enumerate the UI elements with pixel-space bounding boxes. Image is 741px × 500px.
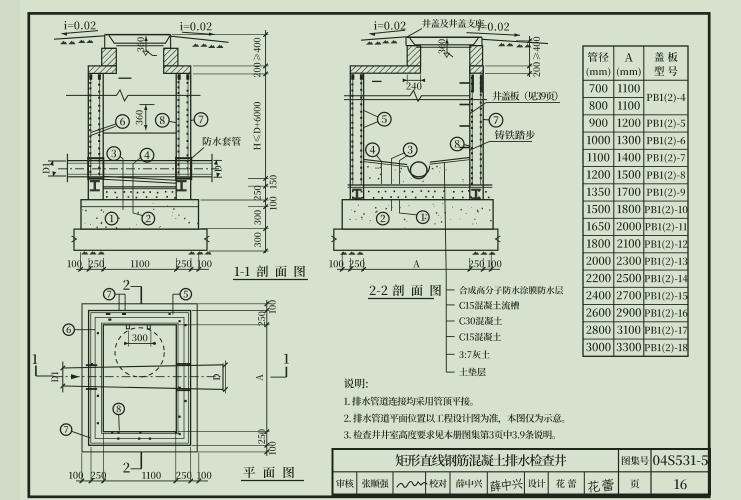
section 2-2: label 井盖及井盖支座 xyxy=(422,19,484,28)
plan: bubble 5 xyxy=(180,289,191,300)
bottom dimension chain 1-1 (100 250 1100 250 100) xyxy=(76,268,209,270)
notes heading 说明: xyxy=(344,378,368,388)
ground hatch under cushion 1-1 xyxy=(81,251,105,254)
material leader vertical line 2-2 xyxy=(444,163,446,274)
plan: neck opening notches xyxy=(126,325,129,329)
callout bubble 7 (1-1) xyxy=(194,113,208,127)
section 2-2: slope label i=0.02 right xyxy=(478,22,510,31)
main title text xyxy=(396,454,567,466)
cover depth dim 360 (1-1) xyxy=(145,36,147,51)
callout bubble 4 (2-2) xyxy=(366,143,380,157)
bubble 1 (1-1) xyxy=(105,212,118,225)
material label 3:7 lime soil xyxy=(459,350,490,359)
top slab 1-1 (hatched) xyxy=(88,66,116,74)
chamber wall right 2-2 xyxy=(469,66,471,200)
label 铸铁踏步 xyxy=(495,130,535,140)
designer signature 花蕾 handwritten xyxy=(587,478,614,493)
manhole cover 2-2 xyxy=(406,36,482,38)
atlas number label 图集号 xyxy=(622,456,649,465)
iron steps 2-2 xyxy=(460,82,470,84)
wall top anchor bars 1-1 xyxy=(89,74,189,80)
callout bubble 5 (2-2) xyxy=(378,112,392,126)
reviewer name 张顺强 xyxy=(362,479,388,488)
callout bubble 6 (1-1) xyxy=(116,115,130,129)
callout bubble 7 (2-2) xyxy=(489,113,503,127)
plan: opening dim 300 xyxy=(128,331,130,347)
section 1-1: ground hatch right xyxy=(192,43,207,46)
rebar stub line in chamber 2-2 xyxy=(372,80,382,82)
bubble 2 (1-1) xyxy=(142,212,155,225)
material label C15 flow channel xyxy=(459,301,519,310)
view title 平面图 xyxy=(243,467,294,479)
extension lines bottom dims 2-2 xyxy=(341,252,343,271)
table header text xyxy=(588,52,609,62)
neck wall left 1-1 (brick hatch) xyxy=(102,48,117,66)
cushion layer 1-1 xyxy=(74,229,207,250)
cover depth dim 360 (2-2) xyxy=(446,39,448,53)
pipe dim D right 1-1 xyxy=(214,159,223,161)
section 2-2: slope label i=0.02 left xyxy=(374,21,406,30)
checker label 校对 xyxy=(429,479,447,488)
wall rebar dots 1-1 xyxy=(89,76,188,175)
neck wall thickness dim 240 (2-2) xyxy=(406,75,408,83)
section 1-1: slope label i=0.02 left xyxy=(64,21,96,30)
ground hatch under cushion 2-2 xyxy=(340,251,364,254)
callout bubble 3 (1-1) xyxy=(107,147,121,161)
chamber wall right 1-1 xyxy=(175,73,177,199)
flow channel U 2-2 xyxy=(408,166,430,177)
section 1-1: ground line right xyxy=(171,36,229,42)
plan: pipe end right xyxy=(222,363,224,391)
callout bubble 3 (2-2) xyxy=(403,143,417,157)
designer label 设计 xyxy=(528,479,545,488)
wall rebar dots 2-2 xyxy=(351,77,481,185)
plan: pipe dim D1 left xyxy=(61,366,65,370)
plan: bubble 7 bottom-left xyxy=(60,424,71,435)
section 2-2: ground line right xyxy=(482,39,548,43)
plan: bubble 6 xyxy=(63,324,74,335)
table body text xyxy=(590,84,608,92)
section 2-2: ground hatch right xyxy=(498,43,513,46)
footing rebar mark left 1-1 xyxy=(90,180,100,191)
base slab 2-2 (stippled) xyxy=(342,200,493,229)
note 2 xyxy=(344,414,564,424)
callout bubble 8 (1-1) xyxy=(156,114,170,128)
section 2-2: ground line left xyxy=(361,37,406,40)
plan: wall opening edges at pipe xyxy=(86,364,97,366)
label waterproof sleeve 防水套管 xyxy=(203,137,241,146)
table row lines xyxy=(583,97,644,99)
plan: pipe dim D right xyxy=(223,363,227,367)
neck wall right 1-1 (brick hatch) xyxy=(164,48,178,66)
section 1-1: ground line left xyxy=(54,36,105,39)
plan: pipe end left xyxy=(62,362,64,393)
footing rebar mark left 2-2 xyxy=(352,189,362,200)
plan: wall rebar line xyxy=(95,317,184,438)
pipe centerline 1-1 xyxy=(58,168,219,170)
cover plate table frame xyxy=(583,46,688,356)
chamber wall left 1-1 xyxy=(87,73,89,199)
pipe sleeve left wall 1-1 xyxy=(88,157,104,159)
plan: section mark 2 bottom xyxy=(123,463,129,473)
bench top line 1-1 xyxy=(103,132,176,134)
section 2-2: ground hatch left xyxy=(366,41,381,44)
plan: pipe channel top line xyxy=(63,365,223,368)
plan bottom extension lines xyxy=(81,453,83,483)
material label soil cushion xyxy=(459,368,486,377)
invert slope lines 1-1 xyxy=(103,176,176,180)
cover slab label 井盖板（见39页） xyxy=(492,91,557,100)
footing rebar mark right 2-2 xyxy=(471,189,481,200)
leader lines bubbles 1-2 (1-1) xyxy=(122,199,124,210)
wall top anchor bars 2-2 xyxy=(351,74,363,80)
plan: pipe channel bottom line xyxy=(63,386,223,389)
neck wall left 2-2 (brick hatch) xyxy=(407,46,420,66)
chamber height dim 360 (1-1) xyxy=(140,104,155,106)
chamber wall left 2-2 xyxy=(349,73,351,200)
page number 16 xyxy=(675,479,687,489)
plan: dashed circle cover opening xyxy=(115,328,164,377)
material label C15 concrete xyxy=(459,333,501,342)
pipe dim D1 left 1-1 xyxy=(48,160,66,162)
rebar stub line in chamber 1-1 xyxy=(119,77,132,79)
chamber concrete fill stipple 2-2 xyxy=(367,165,464,183)
flow channel pipe circle 2-2 xyxy=(410,162,427,179)
atlas number 04S531-5 xyxy=(653,455,708,465)
plan: wall inner face xyxy=(103,325,176,432)
material callout bracket xyxy=(445,274,447,372)
break lines across 2-2 xyxy=(344,90,470,101)
section 1-1: slope label i=0.02 right xyxy=(180,22,212,31)
reviewer label 审核 xyxy=(336,479,354,488)
plan: section mark 1 left xyxy=(33,354,38,364)
cushion layer 2-2 xyxy=(334,229,498,250)
title block frame xyxy=(333,449,711,495)
note 3 xyxy=(344,430,555,439)
manhole cover 1-1 xyxy=(105,34,171,36)
bench slope lines 2-2 xyxy=(364,159,408,164)
break line across 1-1 xyxy=(66,90,201,101)
plan: wall outer face xyxy=(89,311,191,446)
plan: bottom dim chain xyxy=(76,480,208,482)
table cover type text xyxy=(647,93,686,103)
plan: right dim chain xyxy=(266,300,268,456)
title block row dividers xyxy=(356,472,358,495)
right dim labels 1-1 xyxy=(253,38,260,61)
plan: section mark 2 top xyxy=(123,280,129,290)
material label waterproof membrane xyxy=(459,286,563,294)
designer name 花蕾 xyxy=(556,479,576,488)
plan: rebar dots in walls xyxy=(91,313,187,440)
right dim extension lines 1-1 xyxy=(172,34,269,36)
extension lines bottom dims 1-1 xyxy=(80,252,82,271)
pipe end break right 1-1 xyxy=(211,154,213,182)
plan: base slab outline xyxy=(82,304,197,452)
checker name 薛中兴 xyxy=(456,479,482,488)
floor slab lines 2-2 xyxy=(348,184,493,186)
top slab 2-2 (hatched) xyxy=(350,66,420,73)
plan: section mark 1 right xyxy=(284,354,289,364)
plan right dim labels xyxy=(269,300,276,313)
base slab 1-1 (C30 stippled) xyxy=(81,200,199,229)
bubble 1 (2-2) xyxy=(417,211,430,224)
plan: pipe centerline xyxy=(54,376,223,378)
bubble 2 (2-2) xyxy=(377,212,390,225)
callout bubble 4 (1-1) xyxy=(140,148,154,162)
neck wall right 2-2 (brick hatch) xyxy=(470,46,483,66)
view title 2-2 剖面图 xyxy=(370,286,388,295)
wall footing joint lines 1-1 xyxy=(88,177,103,179)
right dimension chain 1-1 xyxy=(265,30,267,253)
floor slab lines 1-1 xyxy=(103,186,176,188)
pipe sleeve right wall 1-1 xyxy=(176,157,192,159)
right dim chain 2-2 (≥400 200) xyxy=(529,36,531,77)
callout bubble 8 (2-2) xyxy=(450,137,464,151)
footing rebar mark right 1-1 xyxy=(177,180,187,191)
plan: flow direction arrow xyxy=(71,374,80,379)
reviewer signature xyxy=(397,482,427,488)
view title 1-1 剖面图 xyxy=(235,267,250,276)
plan: bubble 7 top xyxy=(104,289,115,300)
pipe end break left 1-1 xyxy=(66,154,68,182)
checker signature 薛中兴 handwritten xyxy=(490,477,524,492)
note 1 xyxy=(344,397,473,406)
material label C30 concrete xyxy=(459,317,502,326)
bottom dimension chain 2-2 (100 250 A 250 100) xyxy=(337,268,500,270)
section 1-1: ground hatch left xyxy=(60,41,75,44)
plan: bubble 8 xyxy=(113,403,124,414)
leader lines bubbles 2-2 xyxy=(391,199,393,211)
pipe through 1-1 xyxy=(67,160,212,162)
page label 页 xyxy=(630,479,639,488)
